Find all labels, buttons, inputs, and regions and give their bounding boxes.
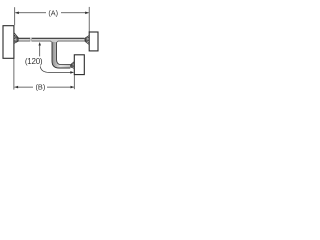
svg-text:(120): (120) [25, 57, 43, 66]
svg-text:(A): (A) [48, 9, 58, 18]
svg-text:(B): (B) [35, 82, 45, 91]
